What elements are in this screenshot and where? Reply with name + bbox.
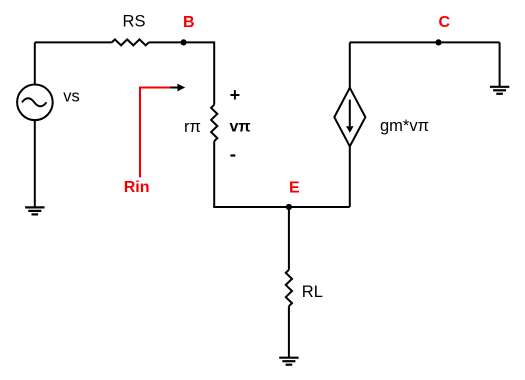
source vs circle — [17, 85, 53, 121]
ground (vs) — [25, 207, 44, 214]
label minus — [230, 154, 235, 156]
source vs sine wave — [22, 98, 47, 106]
wire top rail left segment — [35, 41, 112, 43]
resistor RL — [286, 270, 292, 306]
wire vs top vertical — [34, 42, 36, 84]
current source arrow shaft — [349, 100, 351, 127]
wire current source top to top rail — [349, 42, 351, 88]
ground (right) — [490, 87, 509, 94]
svg-text:B: B — [183, 14, 195, 31]
node E junction dot — [286, 204, 292, 210]
wire bottom rail — [213, 206, 350, 208]
wire current source bottom to bottom rail — [349, 146, 351, 207]
svg-text:C: C — [439, 14, 451, 31]
wire right down to ground — [499, 42, 501, 86]
svg-text:Rin: Rin — [124, 179, 150, 196]
dependent current source gm*vpi diamond — [334, 88, 365, 147]
current source arrowhead — [346, 126, 354, 133]
svg-text:E: E — [289, 179, 300, 196]
ground (RL) — [279, 358, 298, 365]
Rin arrow red elbow — [140, 88, 170, 178]
wire RL bottom to ground — [288, 306, 290, 358]
wire node E down to resistor RL — [288, 207, 290, 270]
svg-text:+: + — [230, 85, 241, 105]
wire rpi bottom to bottom rail — [213, 141, 215, 207]
Rin arrow black shaft — [170, 87, 178, 89]
svg-text:RL: RL — [302, 283, 323, 301]
wire top-right rail — [350, 41, 500, 43]
resistor RS — [112, 39, 149, 45]
svg-text:gm*vπ: gm*vπ — [380, 117, 429, 135]
wire vs bottom to ground — [34, 120, 36, 207]
node B junction dot — [181, 39, 187, 45]
node C junction dot — [435, 39, 441, 45]
wire top rail right segment to corner above rpi — [149, 42, 215, 104]
svg-text:rπ: rπ — [184, 118, 201, 136]
Rin arrowhead — [177, 84, 185, 92]
svg-text:RS: RS — [123, 13, 146, 31]
svg-text:vs: vs — [63, 88, 79, 106]
resistor rpi — [211, 105, 217, 141]
svg-text:vπ: vπ — [230, 119, 251, 136]
